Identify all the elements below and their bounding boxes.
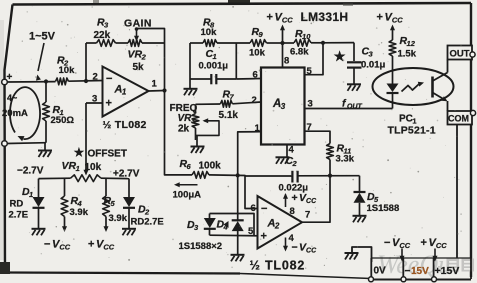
- wire -Vcc arrow to -15V: [401, 249, 403, 260]
- svg-text:2: 2: [144, 208, 150, 217]
- capacitor C3 0.01u with star: [323, 42, 354, 44]
- svg-text:PC: PC: [399, 114, 413, 125]
- svg-text:3.3k: 3.3k: [336, 154, 355, 165]
- svg-text:20mA: 20mA: [2, 108, 28, 119]
- ground C1 left: [189, 79, 191, 89]
- wire C1 to pin6: [236, 78, 261, 81]
- svg-text:7: 7: [305, 210, 310, 221]
- svg-text:+: +: [261, 231, 267, 243]
- svg-text:4~: 4~: [7, 93, 17, 103]
- wire VR3 wiper to bottom: [203, 118, 209, 123]
- resistor R7 5.1k: [196, 103, 221, 105]
- svg-text:5: 5: [307, 66, 313, 77]
- COM terminal box: [448, 111, 473, 125]
- svg-text:OUT: OUT: [450, 49, 470, 60]
- svg-text:+: +: [421, 237, 427, 249]
- svg-text:LM331H: LM331H: [301, 10, 349, 24]
- wire VR1 left to -2.7V node: [39, 177, 71, 179]
- svg-text:−: −: [44, 239, 50, 251]
- diode D3: [204, 218, 216, 228]
- svg-text:CC: CC: [306, 198, 317, 205]
- 0V terminal ground wire: [352, 247, 372, 262]
- svg-text:OUT: OUT: [347, 104, 363, 111]
- wire clamp box: [210, 234, 258, 237]
- light arrow: [402, 84, 420, 92]
- +Vcc supply arrow LM331: [280, 41, 284, 45]
- svg-text:CC: CC: [282, 16, 293, 25]
- svg-text:6: 6: [253, 70, 258, 81]
- ground D1: [32, 228, 46, 230]
- svg-text:CC: CC: [306, 248, 317, 255]
- diode D5 1S1588: [359, 176, 361, 192]
- wire pin1 to summing node: [238, 132, 261, 176]
- svg-text:10: 10: [302, 32, 311, 41]
- wire pin4 to ground: [286, 145, 288, 158]
- svg-text:2.7E: 2.7E: [9, 210, 29, 221]
- svg-text:2: 2: [274, 222, 280, 231]
- svg-text:1S1588: 1S1588: [367, 203, 400, 214]
- wire top rail: [190, 42, 203, 44]
- svg-text:10k: 10k: [249, 48, 266, 59]
- +Vcc arrow A2 pin8: [285, 195, 287, 208]
- wire bottom input: [7, 142, 46, 145]
- svg-text:★: ★: [74, 147, 84, 159]
- svg-text:+: +: [377, 12, 383, 24]
- svg-text:VR: VR: [128, 49, 143, 61]
- op-amp A1 half TL082: [103, 67, 149, 117]
- diode D4: [237, 175, 239, 220]
- svg-text:+: +: [267, 12, 273, 24]
- svg-text:1: 1: [152, 79, 158, 90]
- wire pin8 vertical: [282, 43, 284, 68]
- ground input: [44, 143, 46, 150]
- svg-text:1: 1: [29, 190, 33, 199]
- svg-text:0.01μ: 0.01μ: [361, 60, 385, 71]
- svg-text:RD: RD: [10, 199, 24, 210]
- svg-text:2: 2: [252, 95, 257, 106]
- resistor R10 6.8k: [283, 42, 295, 44]
- svg-text:5.1k: 5.1k: [219, 110, 239, 121]
- svg-text:+: +: [88, 239, 94, 251]
- zener diode D1 RD2.7E: [38, 179, 40, 197]
- svg-text:10k: 10k: [201, 27, 218, 38]
- wire feedback vertical from input node: [84, 79, 88, 83]
- svg-text:2: 2: [292, 159, 298, 168]
- resistor R12 1.5k: [389, 40, 396, 56]
- arrow 1-5V probe: [38, 43, 44, 71]
- wire VR1 right to +2.7V node: [101, 177, 129, 179]
- svg-text:4: 4: [289, 145, 295, 156]
- svg-text:−: −: [405, 266, 411, 277]
- svg-text:−: −: [384, 237, 390, 249]
- wire COM to bottom rail: [456, 125, 458, 259]
- svg-text:+: +: [106, 98, 112, 110]
- svg-text:100μA: 100μA: [173, 190, 202, 201]
- wire summing line left: [165, 174, 193, 176]
- svg-text:−2.7V: −2.7V: [17, 166, 44, 177]
- resistor R6 100k: [192, 172, 209, 179]
- svg-text:CC: CC: [103, 243, 114, 252]
- ground VR3: [196, 135, 198, 146]
- potentiometer VR3 2k: [195, 104, 197, 113]
- svg-text:CC: CC: [392, 16, 403, 25]
- ground clamp: [231, 254, 245, 256]
- svg-text:½ TL082: ½ TL082: [103, 119, 147, 131]
- terminal box 0V: [370, 258, 372, 279]
- svg-text:3.9k: 3.9k: [70, 207, 89, 218]
- svg-text:VR: VR: [62, 160, 77, 172]
- capacitor C2 0.022u: [291, 171, 293, 183]
- terminal + (input positive): [2, 79, 8, 85]
- wire pin7 to R11: [305, 131, 331, 143]
- resistor R9 10k: [250, 40, 267, 47]
- svg-text:1: 1: [122, 88, 127, 97]
- -Vcc arrow A2 pin4: [285, 238, 287, 250]
- svg-text:−: −: [261, 203, 267, 215]
- wire input top: [7, 81, 56, 83]
- OUT terminal box: [448, 46, 473, 60]
- svg-text:12: 12: [407, 39, 416, 48]
- current source 4~20mA: [10, 87, 40, 139]
- resistor R5 3.9k: [105, 179, 107, 196]
- wire A1 output vertical down: [164, 43, 166, 91]
- LED inside optocoupler: [387, 84, 399, 93]
- svg-text:TLP521-1: TLP521-1: [388, 125, 436, 137]
- svg-text:★: ★: [334, 50, 346, 64]
- svg-text:1S1588×2: 1S1588×2: [179, 241, 223, 252]
- potentiometer VR1 10k: [84, 170, 89, 176]
- terminal dots bottom: [369, 277, 374, 282]
- wire A1 output: [149, 90, 165, 93]
- svg-text:COM: COM: [448, 114, 469, 124]
- optocoupler PC1 TLP521-1 body: [373, 68, 454, 105]
- svg-text:3: 3: [281, 102, 286, 111]
- svg-text:15V: 15V: [411, 266, 429, 277]
- IC A3 LM331H block: [261, 68, 305, 145]
- svg-text:2: 2: [141, 53, 147, 62]
- wire +Vcc arrow to +15V: [434, 249, 436, 260]
- svg-text:+2.7V: +2.7V: [113, 169, 140, 180]
- ground D2: [122, 228, 136, 230]
- svg-text:2: 2: [93, 72, 98, 83]
- label 100uA current arrow: [177, 184, 198, 186]
- ground C3: [347, 83, 361, 85]
- potentiometer VR2 5k: [128, 40, 142, 47]
- svg-text:1.5k: 1.5k: [398, 49, 417, 60]
- svg-text:10k: 10k: [85, 162, 102, 173]
- svg-text:3.9k: 3.9k: [109, 213, 128, 224]
- svg-text:1~5V: 1~5V: [29, 31, 56, 43]
- phototransistor: [431, 77, 434, 98]
- op-amp A2 half TL082: [258, 196, 303, 249]
- svg-text:OFFSET: OFFSET: [88, 149, 127, 160]
- resistor R3 22k: [86, 42, 97, 44]
- svg-text:8: 8: [284, 56, 289, 67]
- svg-text:CC: CC: [59, 243, 70, 252]
- wire A2 output node: [328, 174, 332, 178]
- resistor R2: [56, 78, 69, 85]
- wire pin5 connection: [321, 41, 325, 45]
- svg-text:10k: 10k: [59, 65, 76, 76]
- svg-text:GAIN: GAIN: [124, 18, 152, 30]
- wire pin3 stub: [86, 102, 103, 104]
- svg-text:CC: CC: [399, 241, 410, 250]
- svg-text:+: +: [292, 192, 298, 204]
- svg-text:2k: 2k: [178, 124, 190, 135]
- resistor R1: [45, 82, 47, 103]
- svg-text:−: −: [106, 73, 112, 85]
- wire pin3 fOUT: [305, 108, 393, 110]
- capacitor C1 0.001u: [189, 43, 191, 79]
- svg-text:22k: 22k: [94, 30, 111, 41]
- svg-text:0.001μ: 0.001μ: [199, 61, 229, 72]
- border frame: [13, 3, 472, 5]
- wire offset vertical pin3 to VR1 wiper: [85, 103, 87, 172]
- svg-text:1: 1: [76, 164, 80, 173]
- svg-text:6: 6: [251, 203, 256, 214]
- terminal - (input negative): [2, 141, 8, 147]
- zener diode D2 RD2.7E: [128, 179, 130, 197]
- svg-text:8: 8: [290, 206, 295, 217]
- svg-text:CC: CC: [436, 241, 447, 250]
- wire node to A2 pin6: [245, 176, 258, 209]
- svg-text:6.8k: 6.8k: [290, 47, 309, 58]
- svg-text:½ TL082: ½ TL082: [250, 259, 306, 273]
- svg-text:RD2.7E: RD2.7E: [131, 217, 164, 228]
- resistor R4 3.9k: [64, 179, 66, 196]
- svg-text:−: −: [292, 242, 298, 254]
- svg-text:100k: 100k: [199, 161, 222, 172]
- svg-text:0V: 0V: [374, 266, 387, 277]
- svg-text:5k: 5k: [133, 62, 145, 73]
- resistor R8 10k: [203, 40, 217, 47]
- svg-text:5: 5: [248, 226, 254, 237]
- resistor R11 3.3k: [327, 144, 334, 160]
- wire summing to A2 inverting node: [236, 173, 240, 177]
